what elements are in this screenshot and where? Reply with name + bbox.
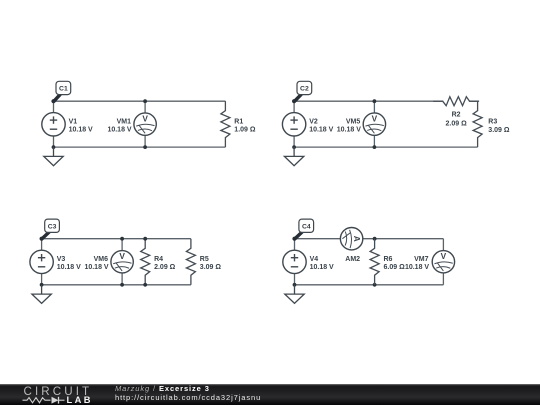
junction ground tee C3 [40, 283, 44, 287]
voltage source V3 [30, 250, 53, 273]
svg-text:10.18 V: 10.18 V [57, 264, 81, 271]
junction ground tee C1 [52, 145, 56, 149]
wire VM6 branch [121, 239, 123, 285]
svg-text:V1: V1 [69, 119, 78, 126]
junction ground tee C2 [292, 145, 296, 149]
junction ground tee C4 [293, 283, 297, 287]
svg-text:R6: R6 [384, 256, 393, 263]
svg-text:VM7: VM7 [414, 256, 429, 263]
node C4 flag [292, 219, 313, 241]
voltage source V1 [42, 113, 65, 136]
node C1 flag [51, 81, 70, 103]
svg-text:10.18 V: 10.18 V [310, 264, 334, 271]
wire V4 branch [294, 239, 296, 285]
svg-text:LAB: LAB [67, 395, 93, 405]
svg-text:C4: C4 [302, 223, 311, 230]
svg-text:3.09 Ω: 3.09 Ω [488, 127, 510, 134]
voltmeter VM1 [134, 113, 156, 135]
wire VM7 branch [442, 239, 444, 285]
svg-text:http://circuitlab.com/ccda32j7: http://circuitlab.com/ccda32j7jasnu [115, 393, 261, 402]
wire bottom rail C4 [295, 284, 444, 286]
junction R4 bottom [143, 283, 147, 287]
svg-text:R4: R4 [154, 256, 163, 263]
svg-text:10.18 V: 10.18 V [405, 264, 429, 271]
svg-text:V4: V4 [310, 256, 319, 263]
wire top rail C2 [294, 100, 443, 102]
wire VM5 branch [373, 101, 375, 147]
svg-text:2.09 Ω: 2.09 Ω [446, 120, 468, 127]
wire V1 branch [53, 101, 55, 147]
voltmeter VM7 [432, 251, 454, 273]
wire bottom rail C1 [54, 146, 226, 148]
svg-text:Marzukg / Excersize 3: Marzukg / Excersize 3 [115, 384, 210, 393]
junction VM1 bottom [143, 145, 147, 149]
resistor R2 (horizontal) [433, 97, 479, 106]
voltage source V4 [283, 250, 306, 273]
svg-text:10.18 V: 10.18 V [84, 264, 108, 271]
svg-text:1.09 Ω: 1.09 Ω [234, 126, 256, 133]
logo resistor zigzag [23, 398, 51, 403]
resistor R3 [473, 101, 482, 147]
ground [284, 147, 303, 166]
junction R6 top [373, 237, 377, 241]
svg-text:10.18 V: 10.18 V [309, 126, 333, 133]
junction VM6 bottom [120, 283, 124, 287]
junction VM5 top [373, 99, 377, 103]
svg-text:3.09 Ω: 3.09 Ω [200, 264, 222, 271]
wire top rail C2 right stub [469, 100, 478, 102]
svg-text:VM6: VM6 [94, 256, 109, 263]
svg-text:10.18 V: 10.18 V [107, 126, 131, 133]
svg-text:V3: V3 [57, 256, 66, 263]
wire V2 branch [293, 101, 295, 147]
voltmeter VM5 [363, 113, 385, 135]
wire V3 branch [41, 239, 43, 285]
svg-text:C1: C1 [59, 86, 68, 93]
junction R6 bottom [373, 283, 377, 287]
ground [44, 147, 63, 166]
svg-text:6.09 Ω: 6.09 Ω [384, 264, 406, 271]
svg-text:AM2: AM2 [345, 256, 360, 263]
wire VM1 branch [144, 101, 146, 147]
svg-text:R1: R1 [234, 119, 243, 126]
wire top rail C3 [42, 238, 191, 240]
ammeter AM2 [340, 228, 362, 250]
wire bottom rail C3 [42, 284, 191, 286]
svg-text:10.18 V: 10.18 V [337, 126, 361, 133]
junction R4 top [143, 237, 147, 241]
svg-text:2.09 Ω: 2.09 Ω [154, 264, 176, 271]
junction VM6 top [120, 237, 124, 241]
svg-text:VM5: VM5 [346, 119, 361, 126]
resistor R4 [141, 239, 150, 285]
wire top rail C1 [54, 100, 226, 102]
junction VM1 top [143, 99, 147, 103]
resistor R6 [370, 239, 379, 285]
wire bottom rail C2 [294, 146, 478, 148]
resistor R1 [221, 101, 230, 147]
node C3 flag [40, 219, 60, 241]
node C2 flag [292, 81, 312, 103]
svg-text:C2: C2 [300, 86, 309, 93]
svg-text:R2: R2 [452, 111, 461, 118]
resistor R5 [186, 239, 195, 285]
ground [32, 285, 51, 304]
wire top rail C4 [295, 238, 444, 240]
svg-text:VM1: VM1 [117, 119, 132, 126]
svg-text:V2: V2 [309, 119, 318, 126]
logo diode [52, 397, 59, 404]
svg-text:R5: R5 [200, 256, 209, 263]
svg-text:C3: C3 [48, 223, 57, 230]
junction VM5 bottom [373, 145, 377, 149]
svg-text:10.18 V: 10.18 V [69, 126, 93, 133]
voltmeter VM6 [111, 251, 133, 273]
svg-text:R3: R3 [488, 119, 497, 126]
ground [285, 285, 304, 304]
voltage source V2 [282, 113, 305, 136]
